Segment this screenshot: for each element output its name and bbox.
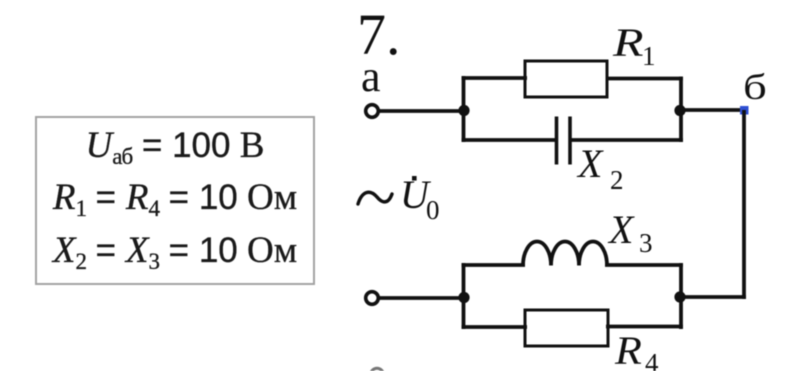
svg-text:R: R <box>614 330 642 371</box>
figure number 7. <box>357 2 401 67</box>
wire right column of R1/X2 group <box>679 77 683 143</box>
wire terminal b to node <box>379 296 466 300</box>
svg-text:X: X <box>576 141 604 186</box>
wire terminal a to node 1 <box>379 109 466 113</box>
source tilde symbol <box>358 192 392 204</box>
label R1 <box>612 21 656 71</box>
label X2 <box>576 141 624 195</box>
node label б <box>743 68 767 108</box>
source label U0 with dot <box>400 172 440 225</box>
svg-text:4: 4 <box>645 348 659 371</box>
wire node to corner б <box>678 108 746 112</box>
svg-text:1: 1 <box>642 41 656 71</box>
label X3 <box>607 207 653 258</box>
node label а <box>361 52 381 101</box>
node junction top-left <box>458 105 469 116</box>
svg-text:0: 0 <box>426 195 440 225</box>
node junction top-right <box>674 105 685 116</box>
svg-text:3: 3 <box>639 228 653 258</box>
wire top branch right of R1 <box>607 77 683 81</box>
node б marker (blue) <box>740 106 749 115</box>
svg-text:2: 2 <box>610 165 624 195</box>
terminal a <box>366 105 379 118</box>
wire bottom branch left of X2 <box>462 138 558 142</box>
svg-text:а: а <box>361 52 381 101</box>
wire R4 branch right <box>606 325 683 329</box>
wire right vertical б column <box>742 110 746 299</box>
terminal b <box>366 292 379 305</box>
given-data box <box>35 116 315 285</box>
svg-text:б: б <box>743 68 767 108</box>
wire top branch left of R1 <box>462 76 528 80</box>
partial next terminal (bottom edge) <box>371 368 384 371</box>
wire R4 branch left <box>462 325 528 329</box>
wire inductor branch left <box>462 263 526 267</box>
node junction bottom-right <box>674 291 685 302</box>
label R4 <box>614 330 659 371</box>
resistor R4 <box>525 310 608 346</box>
resistor R1 <box>525 61 607 97</box>
capacitor X2 <box>557 117 571 165</box>
wire bottom branch right of X2 <box>570 138 683 142</box>
wire inductor branch right <box>605 263 683 267</box>
wire left column of R1/X2 group <box>462 76 466 142</box>
svg-text:X: X <box>607 207 635 252</box>
wire right column of X3/R4 group <box>679 263 683 329</box>
wire left column of X3/R4 group <box>462 263 466 329</box>
svg-text:R: R <box>612 21 644 65</box>
inductor X3 <box>523 242 607 266</box>
node junction bottom-left <box>458 292 469 303</box>
wire bottom-right horizontal <box>678 295 746 299</box>
